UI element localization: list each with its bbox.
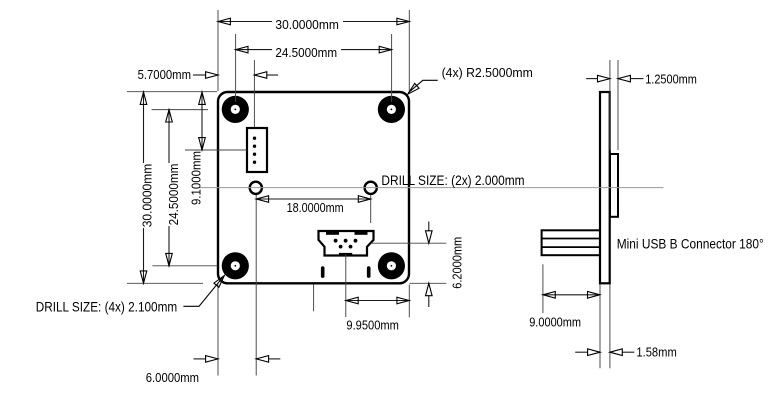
leader arrowhead drill size 4x [214, 276, 224, 288]
svg-text:6.0000mm: 6.0000mm [146, 371, 199, 385]
dim 24.5000mm arrow left [236, 46, 248, 53]
dim 30.0000mm(v) line bottom seg [143, 228, 145, 283]
dim 30.0000mm(v) arrow top [140, 92, 147, 104]
dim 1.58mm arrow right [610, 349, 622, 356]
svg-text:5.7000mm: 5.7000mm [138, 68, 191, 82]
USB shell pad left [326, 231, 339, 235]
USB mounting slot right [367, 266, 371, 278]
USB connector side profile right of PCB [610, 154, 618, 217]
leader line R2.5000mm [408, 80, 438, 93]
PCB side view 1.58mm thick [600, 92, 610, 283]
dim 9.1000mm arrow top [199, 92, 206, 104]
ext line top hole center left [152, 109, 208, 111]
dim 30.0000mm arrow right [397, 18, 409, 25]
dim 9.9500mm arrow left [346, 297, 358, 304]
dim 24.5000mm(v) line top seg [168, 110, 170, 163]
dim 30.0000mm arrow left [218, 18, 230, 25]
dim 30.0000mm line right seg [343, 21, 409, 23]
Mini USB B connector outline front view [319, 231, 374, 256]
ext line USB top-right [371, 242, 446, 244]
PCB board outline front view 30x30mm [218, 92, 409, 283]
dim 9.1000mm arrow bottom [199, 138, 206, 150]
dim 6.0000mm tail right [269, 358, 281, 360]
drill hole left 2.0mm [250, 182, 262, 194]
ext line bottom hole center left [152, 265, 217, 267]
ext line drill-hole center below [255, 195, 257, 376]
ext line USB side right above [617, 60, 619, 150]
ext line USB side left face below [542, 264, 544, 313]
dim 5.7000mm arrow right [254, 72, 266, 79]
svg-text:1.58mm: 1.58mm [636, 345, 676, 359]
dim 30.0000mm line left seg [218, 21, 272, 23]
dim 6.2000mm arrow top tail [428, 222, 430, 231]
dim 24.5000mm arrow right [379, 46, 391, 53]
svg-text:24.5000mm: 24.5000mm [167, 164, 181, 226]
dim 5.7000mm tail right [267, 74, 278, 76]
dim 5.7000mm tail left [193, 74, 206, 76]
4-pin header connector J1 outline [247, 128, 267, 172]
ext line board left edge below [217, 285, 219, 376]
svg-text:18.0000mm: 18.0000mm [287, 201, 344, 215]
dim 9.0000mm arrow left [543, 292, 555, 299]
ext line header top left [185, 149, 247, 151]
mounting hole top-left 2.1mm [222, 96, 249, 123]
dim 18.0000mm arrow left [256, 196, 268, 203]
dim 24.5000mm(v) arrow top [166, 110, 173, 122]
dim 24.5000mm(v) line bottom seg [168, 226, 170, 266]
ext line PCB right face below [609, 285, 611, 369]
ext line board top extended left [127, 91, 217, 93]
ext line board bottom extended left [127, 282, 203, 284]
dim 6.0000mm tail left [194, 358, 206, 360]
mounting hole bottom-left 2.1mm [222, 252, 249, 279]
ext line header center above [253, 60, 255, 127]
ext line USB centerline below [345, 254, 347, 317]
dim 9.0000mm line [543, 294, 600, 296]
dim 1.2500mm arrow left [598, 75, 610, 82]
dim 24.5000mm(v) arrow bottom [166, 253, 173, 265]
svg-text:(4x) R2.5000mm: (4x) R2.5000mm [442, 66, 533, 80]
dim 30.0000mm(v) arrow bottom [140, 271, 147, 283]
4-pin header pins [253, 137, 256, 164]
ext line board bottom extended right [410, 282, 447, 284]
USB shell pad right [355, 231, 368, 235]
dim 18.0000mm line [256, 198, 371, 200]
ext line top-left hole above [235, 34, 237, 102]
dim 30.0000mm(v) line top seg [143, 92, 145, 163]
drill hole right 2.0mm [365, 182, 377, 194]
dim 9.9500mm line [346, 300, 410, 302]
dim 6.2000mm arrow bottom [426, 283, 433, 295]
dim 6.0000mm arrow left [206, 356, 218, 363]
svg-text:Mini USB B Connector 180°: Mini USB B Connector 180° [617, 236, 764, 252]
svg-text:DRILL SIZE: (4x) 2.100mm: DRILL SIZE: (4x) 2.100mm [36, 299, 178, 315]
svg-text:9.0000mm: 9.0000mm [529, 315, 581, 329]
USB mounting slot left [321, 266, 325, 278]
dim 24.5000mm line left seg [236, 49, 272, 51]
svg-text:30.0000mm: 30.0000mm [140, 164, 154, 228]
svg-text:9.9500mm: 9.9500mm [346, 319, 399, 333]
ext line board right edge below [408, 285, 410, 318]
dim 1.58mm arrow right tail [622, 351, 634, 353]
svg-text:6.2000mm: 6.2000mm [451, 237, 465, 289]
svg-text:DRILL SIZE: (2x) 2.000mm: DRILL SIZE: (2x) 2.000mm [381, 172, 524, 188]
horizontal centerline through drill holes [199, 187, 664, 189]
dim 1.2500mm arrow left tail [586, 78, 597, 80]
dim 6.2000mm arrow top [426, 231, 433, 243]
USB bottom pad [339, 253, 352, 256]
ext line short x313 [313, 285, 315, 312]
ext line board left edge above [217, 10, 219, 91]
USB 5 pins [334, 239, 358, 249]
dim 24.5000mm line right seg [341, 49, 392, 51]
ext line board right edge above [408, 10, 410, 91]
dim 9.9500mm arrow right [397, 297, 409, 304]
mounting hole bottom-right 2.1mm [378, 252, 405, 279]
leader line drill size 4x [183, 277, 223, 306]
ext line USB side left above [609, 60, 611, 150]
dim 1.2500mm arrow right [618, 75, 630, 82]
dim 1.2500mm arrow right tail [630, 78, 643, 80]
USB connector side body left of PCB [542, 230, 600, 255]
svg-text:30.0000mm: 30.0000mm [275, 18, 339, 32]
dim 9.1000mm line [201, 92, 203, 150]
svg-text:24.5000mm: 24.5000mm [275, 46, 337, 60]
svg-text:1.2500mm: 1.2500mm [645, 73, 697, 87]
ext line right drill hole below [370, 195, 372, 223]
dim 1.58mm arrow left [588, 349, 600, 356]
dim 5.7000mm arrow left [206, 72, 218, 79]
leader arrowhead R2.5000mm [408, 83, 419, 94]
svg-text:9.1000mm: 9.1000mm [190, 151, 204, 205]
mounting hole top-right 2.1mm [378, 96, 405, 123]
ext line PCB left face below [599, 285, 601, 369]
dim 6.0000mm arrow right [256, 356, 268, 363]
ext line top-right hole above [391, 34, 393, 102]
dim 6.2000mm arrow bottom tail [428, 296, 430, 307]
dim 1.58mm arrow left tail [575, 351, 587, 353]
dim 18.0000mm arrow right [358, 196, 370, 203]
dim 9.0000mm arrow right [588, 292, 600, 299]
